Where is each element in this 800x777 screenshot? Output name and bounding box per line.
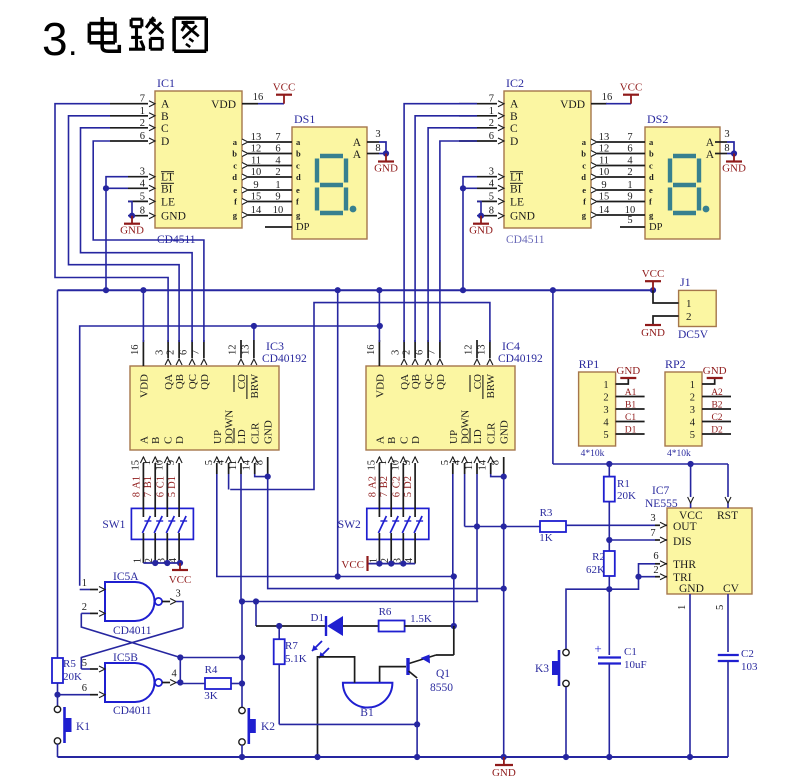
- svg-text:UP: UP: [212, 430, 224, 444]
- svg-text:B1: B1: [625, 401, 636, 411]
- svg-text:7: 7: [379, 492, 390, 497]
- svg-text:D1: D1: [625, 426, 637, 436]
- svg-text:IC5A: IC5A: [113, 571, 139, 583]
- svg-text:CD40192: CD40192: [498, 353, 543, 365]
- svg-text:1: 1: [275, 180, 280, 191]
- svg-text:b: b: [232, 149, 237, 159]
- svg-text:VDD: VDD: [138, 374, 150, 398]
- svg-text:VCC: VCC: [642, 268, 665, 280]
- svg-text:1: 1: [140, 106, 145, 117]
- svg-text:3: 3: [42, 13, 68, 65]
- svg-text:QD: QD: [435, 374, 447, 390]
- svg-text:8: 8: [724, 143, 729, 154]
- svg-text:VDD: VDD: [560, 99, 585, 111]
- svg-text:d: d: [296, 172, 301, 182]
- svg-text:8: 8: [131, 492, 142, 497]
- svg-text:B1: B1: [143, 476, 154, 488]
- svg-text:DC5V: DC5V: [678, 329, 709, 341]
- svg-text:15: 15: [366, 460, 377, 471]
- svg-text:9: 9: [275, 192, 280, 203]
- svg-text:2: 2: [690, 393, 695, 404]
- svg-text:6: 6: [82, 683, 87, 694]
- svg-text:4*10k: 4*10k: [581, 449, 605, 459]
- svg-text:12: 12: [251, 144, 262, 155]
- svg-text:d: d: [581, 172, 586, 182]
- svg-text:15: 15: [130, 460, 141, 471]
- svg-text:QB: QB: [174, 374, 186, 389]
- svg-text:1: 1: [686, 298, 692, 310]
- svg-text:10: 10: [599, 167, 610, 178]
- svg-text:GND: GND: [722, 163, 746, 175]
- svg-text:1K: 1K: [539, 532, 553, 544]
- svg-text:IC1: IC1: [157, 76, 175, 90]
- svg-text:A: A: [374, 436, 386, 444]
- svg-text:11: 11: [464, 460, 475, 470]
- svg-text:b: b: [649, 149, 654, 159]
- svg-text:B2: B2: [711, 401, 722, 411]
- svg-text:2: 2: [166, 350, 177, 355]
- svg-text:5: 5: [489, 191, 494, 202]
- svg-text:GND: GND: [703, 365, 727, 377]
- svg-text:THR: THR: [673, 559, 696, 571]
- svg-text:GND: GND: [263, 420, 275, 444]
- svg-text:14: 14: [599, 205, 610, 216]
- svg-text:1: 1: [603, 380, 608, 391]
- svg-text:16: 16: [366, 345, 377, 356]
- svg-text:D: D: [174, 436, 186, 444]
- svg-text:A: A: [161, 99, 170, 111]
- svg-text:9: 9: [253, 180, 258, 191]
- svg-text:Q1: Q1: [436, 668, 450, 680]
- svg-text:4: 4: [216, 459, 227, 465]
- svg-text:RP2: RP2: [665, 357, 686, 371]
- svg-text:C1: C1: [625, 413, 636, 423]
- svg-text:8: 8: [255, 460, 266, 465]
- svg-text:NE555: NE555: [645, 498, 678, 510]
- svg-text:C2: C2: [391, 476, 402, 488]
- svg-text:A: A: [706, 137, 715, 149]
- svg-text:GND: GND: [616, 365, 640, 377]
- svg-text:RP1: RP1: [579, 357, 600, 371]
- svg-text:1.5K: 1.5K: [410, 613, 432, 625]
- svg-text:10: 10: [154, 460, 165, 471]
- svg-text:BI: BI: [161, 183, 173, 195]
- svg-text:20K: 20K: [617, 490, 636, 502]
- svg-text:LT: LT: [510, 172, 523, 184]
- svg-text:7: 7: [627, 132, 632, 143]
- svg-text:B2: B2: [379, 476, 390, 488]
- svg-text:A: A: [510, 99, 519, 111]
- svg-text:7: 7: [190, 350, 201, 355]
- svg-text:2: 2: [627, 167, 632, 178]
- svg-text:+: +: [594, 641, 601, 656]
- svg-text:J1: J1: [680, 275, 691, 289]
- svg-text:13: 13: [251, 132, 262, 143]
- svg-text:4: 4: [489, 178, 495, 189]
- svg-text:IC2: IC2: [506, 76, 524, 90]
- svg-text:13: 13: [599, 132, 610, 143]
- svg-text:R3: R3: [540, 507, 553, 519]
- svg-text:1: 1: [690, 380, 695, 391]
- svg-text:RST: RST: [717, 510, 738, 522]
- svg-text:5: 5: [627, 215, 632, 226]
- svg-text:e: e: [296, 185, 300, 195]
- svg-text:LE: LE: [161, 196, 175, 208]
- svg-text:D2: D2: [711, 426, 723, 436]
- svg-text:CLR: CLR: [486, 422, 498, 444]
- svg-text:10: 10: [251, 167, 262, 178]
- svg-text:2: 2: [82, 602, 87, 613]
- svg-text:B: B: [161, 111, 169, 123]
- svg-text:5: 5: [603, 430, 608, 441]
- svg-text:2: 2: [489, 118, 494, 129]
- svg-text:B: B: [386, 437, 398, 444]
- svg-text:CD40192: CD40192: [262, 353, 307, 365]
- svg-text:CV: CV: [723, 583, 740, 595]
- svg-text:CO: CO: [472, 374, 484, 389]
- svg-text:c: c: [649, 161, 653, 171]
- svg-text:IC7: IC7: [652, 485, 670, 497]
- svg-text:3: 3: [155, 350, 166, 355]
- svg-text:1: 1: [378, 460, 389, 465]
- svg-text:CD4011: CD4011: [113, 705, 152, 717]
- svg-text:LE: LE: [510, 196, 524, 208]
- svg-text:c: c: [233, 161, 237, 171]
- svg-text:7: 7: [275, 132, 280, 143]
- svg-text:6: 6: [155, 492, 166, 497]
- svg-text:A1: A1: [625, 388, 637, 398]
- svg-text:VCC: VCC: [169, 574, 192, 586]
- svg-text:VCC: VCC: [620, 82, 643, 94]
- svg-text:CLR: CLR: [250, 422, 262, 444]
- svg-text:D: D: [161, 136, 169, 148]
- svg-text:BRW: BRW: [249, 373, 261, 398]
- svg-text:15: 15: [251, 192, 262, 203]
- svg-text:6: 6: [140, 131, 145, 142]
- svg-text:16: 16: [130, 345, 141, 356]
- svg-text:6: 6: [653, 551, 658, 562]
- svg-text:R2: R2: [592, 551, 605, 563]
- svg-text:9: 9: [601, 180, 606, 191]
- svg-text:62K: 62K: [586, 564, 605, 576]
- svg-text:4: 4: [140, 178, 146, 189]
- svg-text:2: 2: [275, 167, 280, 178]
- svg-text:13: 13: [240, 345, 251, 356]
- svg-text:4: 4: [690, 418, 696, 429]
- svg-text:1: 1: [132, 558, 143, 563]
- svg-text:BI: BI: [510, 183, 522, 195]
- svg-text:6: 6: [179, 350, 190, 355]
- svg-text:b: b: [296, 149, 301, 159]
- svg-text:K1: K1: [76, 721, 90, 733]
- svg-text:7: 7: [489, 94, 494, 105]
- svg-text:.: .: [68, 25, 77, 63]
- svg-text:14: 14: [242, 459, 253, 470]
- svg-text:R4: R4: [205, 664, 218, 676]
- svg-text:OUT: OUT: [673, 521, 697, 533]
- svg-text:8550: 8550: [430, 682, 453, 694]
- svg-text:5: 5: [690, 430, 695, 441]
- svg-text:10: 10: [390, 460, 401, 471]
- svg-text:e: e: [649, 185, 653, 195]
- svg-text:C1: C1: [155, 476, 166, 488]
- svg-text:7: 7: [426, 350, 437, 355]
- svg-text:4: 4: [171, 669, 177, 680]
- svg-text:A: A: [353, 137, 362, 149]
- svg-text:GND: GND: [492, 767, 516, 777]
- svg-text:A1: A1: [131, 476, 142, 489]
- svg-text:5: 5: [204, 460, 215, 465]
- svg-text:6: 6: [627, 144, 632, 155]
- svg-text:8: 8: [140, 206, 145, 217]
- svg-text:3: 3: [375, 129, 380, 140]
- svg-text:QC: QC: [187, 374, 199, 389]
- svg-text:C: C: [161, 123, 169, 135]
- svg-text:8: 8: [367, 492, 378, 497]
- svg-text:14: 14: [478, 459, 489, 470]
- svg-text:B1: B1: [360, 707, 374, 719]
- svg-text:16: 16: [253, 92, 264, 103]
- svg-text:15: 15: [599, 192, 610, 203]
- svg-text:f: f: [296, 197, 299, 207]
- svg-text:GND: GND: [161, 211, 186, 223]
- svg-text:12: 12: [228, 345, 239, 356]
- svg-text:3: 3: [650, 513, 655, 524]
- svg-text:B: B: [150, 437, 162, 444]
- svg-text:QD: QD: [199, 374, 211, 390]
- svg-text:4: 4: [627, 156, 633, 167]
- svg-text:4: 4: [603, 418, 609, 429]
- svg-text:11: 11: [599, 156, 609, 167]
- svg-text:8: 8: [489, 206, 494, 217]
- svg-text:DP: DP: [296, 222, 310, 233]
- svg-text:e: e: [582, 185, 586, 195]
- svg-text:11: 11: [228, 460, 239, 470]
- svg-text:9: 9: [166, 460, 177, 465]
- svg-text:5.1K: 5.1K: [285, 653, 307, 665]
- svg-text:A2: A2: [367, 476, 378, 489]
- svg-text:13: 13: [476, 345, 487, 356]
- svg-text:C1: C1: [624, 646, 637, 658]
- svg-text:VDD: VDD: [211, 99, 236, 111]
- svg-text:10: 10: [273, 205, 284, 216]
- svg-text:DIS: DIS: [673, 536, 692, 548]
- svg-text:6: 6: [415, 350, 426, 355]
- svg-text:4*10k: 4*10k: [667, 449, 691, 459]
- svg-text:d: d: [232, 172, 237, 182]
- svg-text:2: 2: [402, 350, 413, 355]
- svg-text:5: 5: [140, 191, 145, 202]
- svg-text:5: 5: [403, 492, 414, 497]
- svg-text:d: d: [649, 172, 654, 182]
- svg-text:CD4011: CD4011: [113, 625, 152, 637]
- svg-text:C2: C2: [711, 413, 722, 423]
- svg-text:e: e: [233, 185, 237, 195]
- svg-text:GND: GND: [120, 225, 144, 237]
- svg-text:D1: D1: [167, 476, 178, 489]
- svg-text:D2: D2: [403, 476, 414, 489]
- svg-text:GND: GND: [469, 225, 493, 237]
- svg-text:R7: R7: [285, 640, 298, 652]
- svg-text:3: 3: [175, 589, 180, 600]
- svg-text:3: 3: [724, 129, 729, 140]
- svg-text:9: 9: [627, 192, 632, 203]
- svg-text:D1: D1: [311, 612, 324, 624]
- svg-text:R6: R6: [379, 606, 392, 618]
- svg-text:GND: GND: [374, 163, 398, 175]
- svg-text:K3: K3: [535, 663, 549, 675]
- svg-text:GND: GND: [679, 583, 704, 595]
- svg-text:8: 8: [375, 143, 380, 154]
- svg-text:14: 14: [251, 205, 262, 216]
- svg-text:4: 4: [452, 459, 463, 465]
- svg-text:K2: K2: [261, 721, 275, 733]
- svg-text:7: 7: [650, 528, 655, 539]
- svg-text:8: 8: [491, 460, 502, 465]
- svg-text:IC5B: IC5B: [113, 652, 138, 664]
- svg-text:1: 1: [677, 605, 688, 610]
- svg-text:R1: R1: [617, 478, 630, 490]
- svg-text:3K: 3K: [204, 690, 218, 702]
- svg-text:GND: GND: [499, 420, 511, 444]
- svg-text:SW1: SW1: [102, 519, 125, 531]
- svg-text:f: f: [649, 197, 652, 207]
- svg-text:QB: QB: [410, 374, 422, 389]
- svg-text:6: 6: [275, 144, 280, 155]
- svg-text:VDD: VDD: [374, 374, 386, 398]
- svg-text:3: 3: [489, 167, 494, 178]
- svg-text:7: 7: [140, 94, 145, 105]
- svg-text:1: 1: [142, 460, 153, 465]
- svg-text:CD4511: CD4511: [506, 234, 545, 246]
- svg-text:A: A: [353, 149, 362, 161]
- svg-text:DS1: DS1: [294, 112, 315, 126]
- svg-text:A: A: [706, 149, 715, 161]
- svg-text:C: C: [398, 437, 410, 444]
- svg-text:b: b: [581, 149, 586, 159]
- svg-text:2: 2: [603, 393, 608, 404]
- svg-text:2: 2: [140, 118, 145, 129]
- svg-text:16: 16: [602, 92, 613, 103]
- svg-text:VCC: VCC: [273, 82, 296, 94]
- svg-text:1: 1: [627, 180, 632, 191]
- svg-text:C: C: [162, 437, 174, 444]
- svg-text:LT: LT: [161, 172, 174, 184]
- svg-text:VCC: VCC: [341, 559, 364, 571]
- svg-text:IC3: IC3: [266, 339, 284, 353]
- svg-text:C2: C2: [741, 648, 754, 660]
- svg-text:2: 2: [686, 311, 692, 323]
- svg-text:12: 12: [599, 144, 610, 155]
- svg-text:GND: GND: [641, 327, 665, 339]
- svg-text:SW2: SW2: [338, 519, 361, 531]
- svg-text:D: D: [410, 436, 422, 444]
- svg-text:A2: A2: [711, 388, 723, 398]
- svg-text:3: 3: [391, 350, 402, 355]
- svg-text:QC: QC: [423, 374, 435, 389]
- svg-text:f: f: [583, 197, 586, 207]
- svg-text:IC4: IC4: [502, 339, 520, 353]
- svg-text:10uF: 10uF: [624, 659, 647, 671]
- svg-text:c: c: [296, 161, 300, 171]
- svg-text:6: 6: [391, 492, 402, 497]
- svg-text:6: 6: [489, 131, 494, 142]
- svg-text:1: 1: [489, 106, 494, 117]
- svg-text:UP: UP: [448, 430, 460, 444]
- svg-text:D: D: [510, 136, 518, 148]
- svg-text:DS2: DS2: [647, 112, 668, 126]
- svg-text:LD: LD: [236, 429, 248, 444]
- svg-text:R5: R5: [63, 658, 76, 670]
- svg-text:20K: 20K: [63, 671, 82, 683]
- svg-text:DP: DP: [649, 222, 663, 233]
- svg-text:A: A: [138, 436, 150, 444]
- svg-text:9: 9: [402, 460, 413, 465]
- svg-text:3: 3: [603, 405, 608, 416]
- svg-text:f: f: [234, 197, 237, 207]
- svg-text:103: 103: [741, 661, 758, 673]
- svg-text:5: 5: [440, 460, 451, 465]
- svg-text:LD: LD: [472, 429, 484, 444]
- svg-text:5: 5: [82, 658, 87, 669]
- svg-text:5: 5: [167, 492, 178, 497]
- svg-text:CO: CO: [236, 374, 248, 389]
- svg-text:GND: GND: [510, 211, 535, 223]
- svg-text:4: 4: [275, 156, 281, 167]
- svg-text:11: 11: [251, 156, 261, 167]
- svg-text:2: 2: [653, 565, 658, 576]
- svg-text:12: 12: [464, 345, 475, 356]
- svg-text:3: 3: [690, 405, 695, 416]
- svg-text:1: 1: [82, 578, 87, 589]
- svg-text:5: 5: [715, 605, 726, 610]
- svg-text:B: B: [510, 111, 518, 123]
- svg-text:c: c: [582, 161, 586, 171]
- svg-text:BRW: BRW: [485, 373, 497, 398]
- svg-text:C: C: [510, 123, 518, 135]
- svg-text:3: 3: [140, 167, 145, 178]
- svg-text:7: 7: [143, 492, 154, 497]
